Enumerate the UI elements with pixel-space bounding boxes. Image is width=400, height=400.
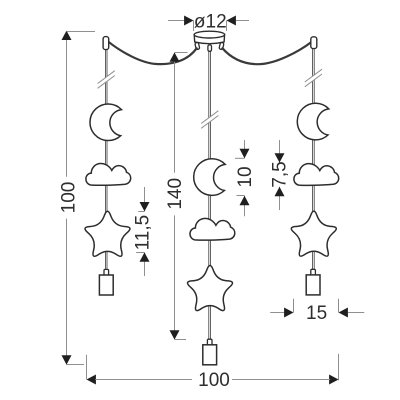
svg-text:7,5: 7,5 — [269, 161, 290, 187]
svg-text:100: 100 — [58, 182, 79, 214]
svg-text:11,5: 11,5 — [133, 215, 154, 251]
svg-text:10: 10 — [235, 166, 256, 187]
svg-text:100: 100 — [198, 370, 230, 391]
svg-text:15: 15 — [306, 303, 327, 324]
svg-text:ø12: ø12 — [194, 11, 227, 32]
svg-text:140: 140 — [165, 178, 186, 210]
